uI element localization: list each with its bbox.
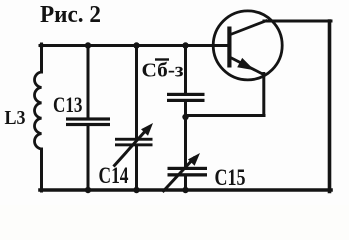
- svg-text:Сб-з: Сб-з: [142, 60, 184, 82]
- svg-text:Рис. 2: Рис. 2: [40, 1, 101, 28]
- svg-text:C15: C15: [215, 165, 246, 190]
- svg-text:L3: L3: [5, 107, 26, 129]
- svg-text:C14: C14: [99, 163, 129, 188]
- svg-text:C13: C13: [53, 92, 83, 117]
